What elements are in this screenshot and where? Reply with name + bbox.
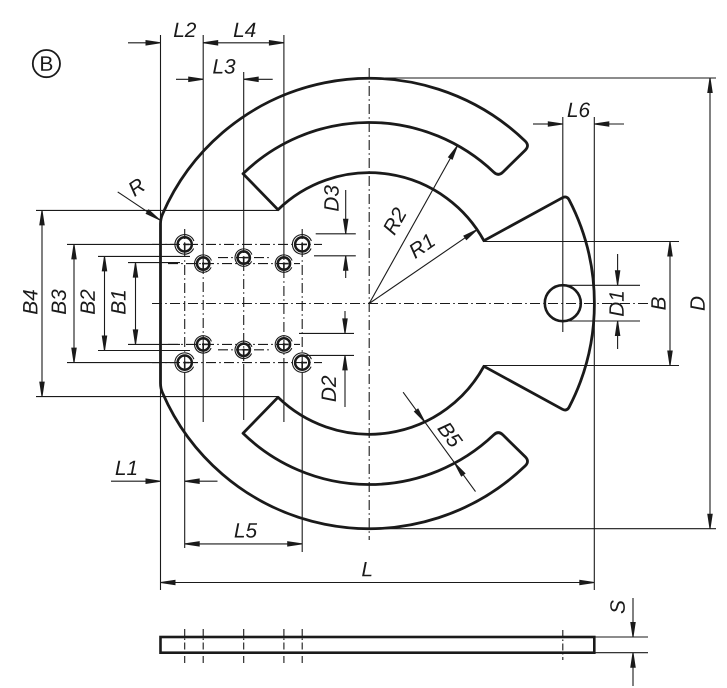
wire: B3 extension top xyxy=(67,243,175,245)
hole H1 row A top-left xyxy=(178,237,192,251)
wire: D3 extension bottom xyxy=(314,255,356,257)
wire: B3 extension bottom xyxy=(67,362,175,364)
wire: B1 extension top xyxy=(128,262,180,264)
wire: extension line left edge x=161 xyxy=(160,35,162,590)
dimension S xyxy=(632,598,634,637)
side view plate bar xyxy=(161,637,595,653)
dimension B3 xyxy=(73,244,75,362)
hole H2 row B top-left xyxy=(197,257,209,269)
hole H5 row A top-right xyxy=(295,237,309,251)
node: view label B xyxy=(33,50,60,77)
node: row C centerline bottom xyxy=(218,349,272,351)
dimension D1 xyxy=(617,254,619,285)
side view hole line x=302.2 xyxy=(301,629,303,663)
dimension R2 xyxy=(369,146,457,304)
dimension D2 xyxy=(344,311,346,333)
wire: D1 extension bottom xyxy=(567,320,640,322)
node: vertical centerline xyxy=(368,68,370,540)
wire: extension line col x=243.7 lower xyxy=(243,364,245,420)
dimension L4 xyxy=(203,42,284,44)
wire: S extension bottom xyxy=(594,652,648,654)
dimension L6 xyxy=(533,123,549,125)
wire: extension line col x=243.7 xyxy=(243,72,245,243)
dimension L5 xyxy=(185,543,303,545)
node: horizontal centerline xyxy=(152,303,648,305)
wire: B extension top xyxy=(483,241,679,243)
dimension B5 xyxy=(403,392,475,491)
hole H4 row B top-right xyxy=(278,257,290,269)
node: row A centerline bottom xyxy=(152,362,322,364)
dimension R1 xyxy=(369,230,477,304)
dimension D xyxy=(709,78,711,529)
hole H9 row B bottom-right xyxy=(278,338,290,350)
wire: extension line right edge x=594.3 xyxy=(593,117,595,590)
side view hole line x=283.9 xyxy=(283,629,285,663)
dimension B xyxy=(669,242,671,366)
dimension L3 xyxy=(176,78,203,80)
node: row A centerline top xyxy=(152,243,322,245)
wire: extension line col x=203.2 xyxy=(202,35,204,264)
wire: D extension bottom xyxy=(385,528,716,530)
wire: extension line hole D1 x=563 xyxy=(562,117,564,332)
wire: B extension bottom xyxy=(483,365,679,367)
wire: B2 extension bottom xyxy=(98,350,190,352)
wire: extension line col x=283.9 lower xyxy=(283,358,285,422)
wire: extension line col x=283.9 xyxy=(283,35,285,250)
side view hole line x=184.7 xyxy=(184,629,186,663)
hole H3 middle top xyxy=(238,251,250,263)
node: centerline col x=184.7 xyxy=(184,229,186,377)
wire: B4 extension bottom xyxy=(36,396,278,398)
node: centerline col x=203.2 xyxy=(202,264,204,346)
wire: extension line col x=203.2 lower xyxy=(202,346,204,422)
wire: D3 extension top xyxy=(316,233,356,235)
wire: B2 extension top xyxy=(98,255,190,257)
node: row C centerline top xyxy=(218,257,272,259)
wire: D2 extension bottom xyxy=(299,354,354,356)
wire: D2 extension top xyxy=(299,332,354,334)
node: row B centerline top xyxy=(168,263,300,265)
dimension B4 xyxy=(41,210,43,396)
hole D1 on tab xyxy=(545,285,581,321)
node: centerline col x=283.9 xyxy=(283,250,285,358)
wire: B4 extension top xyxy=(36,209,278,211)
side view hole line x=243.7 xyxy=(243,629,245,663)
dimension L2 xyxy=(128,42,147,44)
wire: extension line col x=302.2 lower xyxy=(301,377,303,552)
hole H7 row B bottom-left xyxy=(197,338,209,350)
side view hole D1 line xyxy=(562,630,564,660)
side view hole line x=203.2 xyxy=(202,629,204,663)
dimension B2 xyxy=(104,256,106,350)
wire: extension line col x=184.7 lower xyxy=(184,377,186,548)
dimension L xyxy=(161,582,595,584)
node: centerline col x=243.7 xyxy=(243,243,245,364)
hole H10 row A bottom-right xyxy=(295,356,309,370)
node: centerline col x=302.2 xyxy=(301,229,303,377)
wire: B1 extension bottom xyxy=(128,343,180,345)
dimension R xyxy=(118,192,160,220)
wire: D1 extension top xyxy=(567,284,640,286)
dimension B1 xyxy=(135,263,137,345)
hole H8 middle bottom xyxy=(238,344,250,356)
dimension L1 xyxy=(111,480,147,482)
dimension D3 xyxy=(345,190,347,234)
plate outline xyxy=(161,78,595,528)
hole H6 row A bottom-left xyxy=(178,356,192,370)
node: row B centerline bottom xyxy=(168,343,300,345)
wire: D extension top xyxy=(385,77,716,79)
wire: S extension top xyxy=(594,636,648,638)
